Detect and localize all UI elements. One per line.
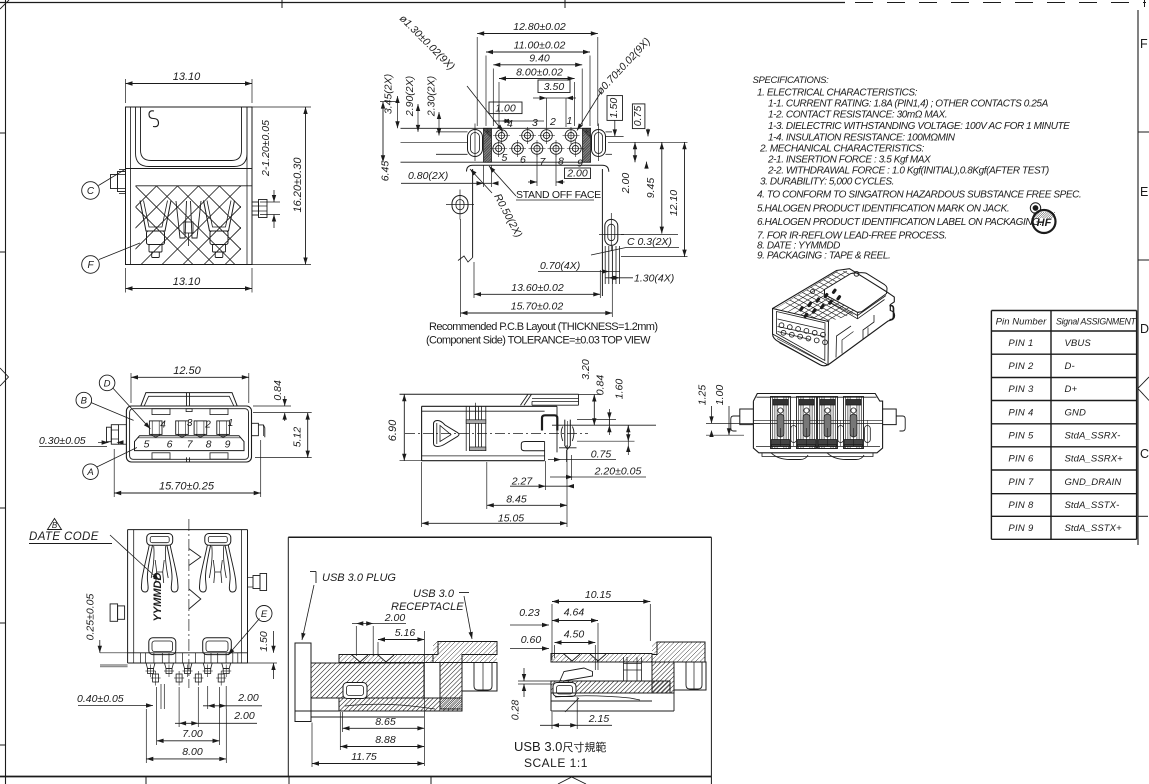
svg-text:1-2. CONTACT RESISTANCE: 30mΩ: 1-2. CONTACT RESISTANCE: 30mΩ MAX. (768, 110, 947, 121)
svg-text:6: 6 (167, 438, 173, 450)
svg-text:SPECIFICATIONS:: SPECIFICATIONS: (753, 75, 830, 86)
svg-text:PIN 1: PIN 1 (1008, 338, 1033, 349)
svg-text:1-3. DIELECTRIC WITHSTANDING V: 1-3. DIELECTRIC WITHSTANDING VOLTAGE: 10… (768, 121, 1070, 132)
svg-text:9.45: 9.45 (645, 178, 657, 199)
svg-text:2.20±0.05: 2.20±0.05 (594, 466, 642, 478)
svg-text:8.00±0.02: 8.00±0.02 (516, 67, 563, 79)
svg-text:B: B (52, 521, 58, 530)
svg-text:2-1.20±0.05: 2-1.20±0.05 (260, 120, 272, 177)
svg-text:PIN 6: PIN 6 (1008, 454, 1034, 465)
svg-text:0.30±0.05: 0.30±0.05 (39, 435, 86, 447)
svg-text:2: 2 (549, 116, 556, 128)
svg-text:1.50: 1.50 (608, 98, 620, 119)
svg-text:YYMMDD: YYMMDD (152, 573, 164, 622)
svg-text:PIN 9: PIN 9 (1008, 523, 1034, 534)
svg-text:5.HALOGEN PRODUCT IDENTIFICATI: 5.HALOGEN PRODUCT IDENTIFICATION MARK ON… (757, 204, 1009, 215)
svg-text:PIN 4: PIN 4 (1008, 407, 1033, 418)
svg-text:12.10: 12.10 (668, 190, 680, 216)
svg-text:2.90(2X): 2.90(2X) (404, 76, 416, 117)
svg-text:5: 5 (144, 438, 150, 450)
svg-text:PIN 8: PIN 8 (1008, 500, 1034, 511)
svg-text:PIN 3: PIN 3 (1008, 384, 1034, 395)
svg-text:VBUS: VBUS (1065, 338, 1092, 349)
svg-text:2.00: 2.00 (620, 173, 632, 195)
svg-text:4: 4 (160, 419, 166, 430)
svg-text:0.40±0.05: 0.40±0.05 (77, 693, 124, 705)
svg-text:GND_DRAIN: GND_DRAIN (1065, 477, 1122, 488)
svg-text:2.27: 2.27 (511, 476, 534, 488)
svg-text:E: E (1140, 185, 1148, 199)
svg-text:6.90: 6.90 (387, 419, 399, 441)
svg-text:8.88: 8.88 (375, 734, 396, 746)
svg-text:Recommended P.C.B Layout (THIC: Recommended P.C.B Layout (THICKNESS=1.2m… (429, 321, 657, 333)
svg-text:13.10: 13.10 (173, 276, 201, 288)
svg-text:7.00: 7.00 (182, 728, 203, 740)
svg-text:0.70(4X): 0.70(4X) (540, 260, 580, 272)
svg-text:3. DURABILITY: 5,000 CYCLES.: 3. DURABILITY: 5,000 CYCLES. (760, 177, 894, 188)
svg-text:10.15: 10.15 (585, 589, 611, 601)
svg-text:6: 6 (520, 154, 526, 166)
svg-text:1: 1 (228, 418, 234, 429)
svg-text:2: 2 (204, 419, 211, 430)
svg-text:0.25±0.05: 0.25±0.05 (85, 594, 97, 641)
svg-text:PIN 5: PIN 5 (1008, 431, 1034, 442)
svg-text:Signal ASSIGNMENT: Signal ASSIGNMENT (1056, 317, 1137, 327)
svg-text:C: C (1140, 447, 1149, 461)
svg-text:4. TO CONFORM TO SINGATRON HAZ: 4. TO CONFORM TO SINGATRON HAZARDOUS SUB… (757, 190, 1081, 201)
svg-text:PIN 2: PIN 2 (1008, 361, 1034, 372)
svg-text:2.15: 2.15 (588, 713, 610, 725)
svg-text:8.45: 8.45 (506, 494, 527, 506)
svg-text:12.80±0.02: 12.80±0.02 (513, 21, 566, 33)
svg-text:16.20±0.30: 16.20±0.30 (292, 157, 304, 213)
svg-text:GND: GND (1065, 407, 1086, 418)
svg-text:USB 3.0 PLUG: USB 3.0 PLUG (322, 572, 396, 584)
svg-text:15.70±0.02: 15.70±0.02 (511, 301, 564, 313)
svg-text:1.60: 1.60 (614, 379, 626, 400)
svg-text:(Component Side) TOLERANCE=±0.: (Component Side) TOLERANCE=±0.03 TOP VIE… (426, 335, 651, 347)
svg-text:0.84: 0.84 (272, 380, 284, 401)
svg-text:2.30(2X): 2.30(2X) (426, 76, 438, 117)
svg-text:2.00: 2.00 (233, 710, 255, 722)
svg-text:PIN 7: PIN 7 (1008, 477, 1034, 488)
svg-text:STAND OFF FACE: STAND OFF FACE (516, 189, 601, 201)
svg-text:C 0.3(2X): C 0.3(2X) (627, 236, 672, 248)
svg-text:5.12: 5.12 (292, 427, 304, 448)
svg-text:11.00±0.02: 11.00±0.02 (514, 40, 566, 52)
svg-text:15.05: 15.05 (498, 513, 524, 525)
svg-text:C: C (87, 186, 95, 197)
svg-text:4.64: 4.64 (564, 607, 585, 619)
svg-text:11.75: 11.75 (351, 751, 377, 763)
svg-text:2. MECHANICAL CHARACTERISTICS:: 2. MECHANICAL CHARACTERISTICS: (759, 144, 925, 155)
svg-text:0.75: 0.75 (591, 449, 612, 461)
svg-text:F: F (87, 260, 94, 271)
svg-text:StdA_SSTX-: StdA_SSTX- (1065, 500, 1120, 511)
svg-text:DATE CODE: DATE CODE (29, 531, 99, 543)
svg-text:D-: D- (1065, 361, 1075, 372)
svg-text:0.80(2X): 0.80(2X) (408, 170, 448, 182)
svg-text:SCALE 1:1: SCALE 1:1 (524, 756, 588, 770)
svg-text:4.50: 4.50 (564, 629, 585, 641)
svg-text:A: A (86, 467, 93, 478)
svg-text:6.45: 6.45 (380, 161, 392, 182)
svg-text:2-2. WITHDRAWAL FORCE : 1.0 Kg: 2-2. WITHDRAWAL FORCE : 1.0 Kgf(INITIAL)… (767, 166, 1049, 177)
svg-text:2.00: 2.00 (566, 168, 588, 180)
svg-text:B: B (81, 396, 88, 407)
svg-text:2-1. INSERTION FORCE : 3.5 Kgf: 2-1. INSERTION FORCE : 3.5 Kgf MAX (767, 155, 931, 166)
svg-text:1.50: 1.50 (258, 631, 270, 652)
svg-text:9.40: 9.40 (529, 53, 550, 65)
svg-text:13.10: 13.10 (173, 71, 201, 83)
svg-text:StdA_SSRX+: StdA_SSRX+ (1065, 454, 1124, 465)
svg-text:12.50: 12.50 (173, 365, 201, 377)
svg-text:StdA_SSRX-: StdA_SSRX- (1065, 431, 1121, 442)
svg-text:3: 3 (187, 418, 193, 429)
svg-text:2.00: 2.00 (237, 692, 259, 704)
svg-text:3.50: 3.50 (544, 81, 565, 93)
svg-text:15.70±0.25: 15.70±0.25 (159, 481, 215, 493)
svg-text:0.23: 0.23 (519, 607, 540, 619)
svg-text:0.60: 0.60 (521, 634, 542, 646)
svg-text:Pin Number: Pin Number (996, 317, 1047, 328)
svg-text:1.30(4X): 1.30(4X) (634, 273, 674, 285)
svg-text:6.HALOGEN PRODUCT IDENTIFICATI: 6.HALOGEN PRODUCT IDENTIFICATION LABEL O… (757, 217, 1042, 228)
svg-text:3: 3 (532, 117, 538, 129)
svg-text:1.00: 1.00 (714, 385, 726, 406)
svg-text:1-4. INSULATION RESISTANCE: 10: 1-4. INSULATION RESISTANCE: 100MΩMIN (768, 133, 956, 144)
svg-text:1.00: 1.00 (495, 103, 516, 115)
svg-text:5.16: 5.16 (395, 627, 416, 639)
svg-text:D+: D+ (1065, 384, 1078, 395)
svg-text:0.84: 0.84 (595, 375, 607, 396)
svg-text:USB 3.0: USB 3.0 (413, 588, 455, 600)
svg-text:E: E (261, 609, 268, 620)
svg-text:13.60±0.02: 13.60±0.02 (511, 282, 564, 294)
svg-text:0.28: 0.28 (510, 700, 522, 721)
svg-text:0.75: 0.75 (632, 106, 644, 127)
svg-text:3.20: 3.20 (580, 359, 592, 380)
svg-text:StdA_SSTX+: StdA_SSTX+ (1065, 523, 1123, 534)
svg-text:HF: HF (1037, 217, 1052, 229)
svg-text:8.65: 8.65 (375, 716, 396, 728)
svg-text:F: F (1140, 37, 1148, 51)
svg-text:1: 1 (567, 115, 573, 127)
svg-text:8.00: 8.00 (182, 746, 203, 758)
svg-text:USB 3.0尺寸規範: USB 3.0尺寸規範 (514, 739, 606, 754)
svg-text:8: 8 (206, 438, 212, 450)
svg-text:9. PACKAGING : TAPE & REEL.: 9. PACKAGING : TAPE & REEL. (757, 251, 890, 262)
svg-text:1. ELECTRICAL CHARACTERISTICS:: 1. ELECTRICAL CHARACTERISTICS: (757, 88, 918, 99)
svg-text:5: 5 (502, 152, 508, 164)
svg-text:1.25: 1.25 (697, 385, 709, 406)
svg-text:D: D (104, 378, 111, 389)
svg-text:2.00: 2.00 (384, 612, 406, 624)
svg-text:9: 9 (225, 438, 231, 450)
svg-text:1-1. CURRENT RATING: 1.8A (PIN: 1-1. CURRENT RATING: 1.8A (PIN1,4) ; OTH… (768, 99, 1049, 110)
svg-text:D: D (1140, 322, 1149, 336)
